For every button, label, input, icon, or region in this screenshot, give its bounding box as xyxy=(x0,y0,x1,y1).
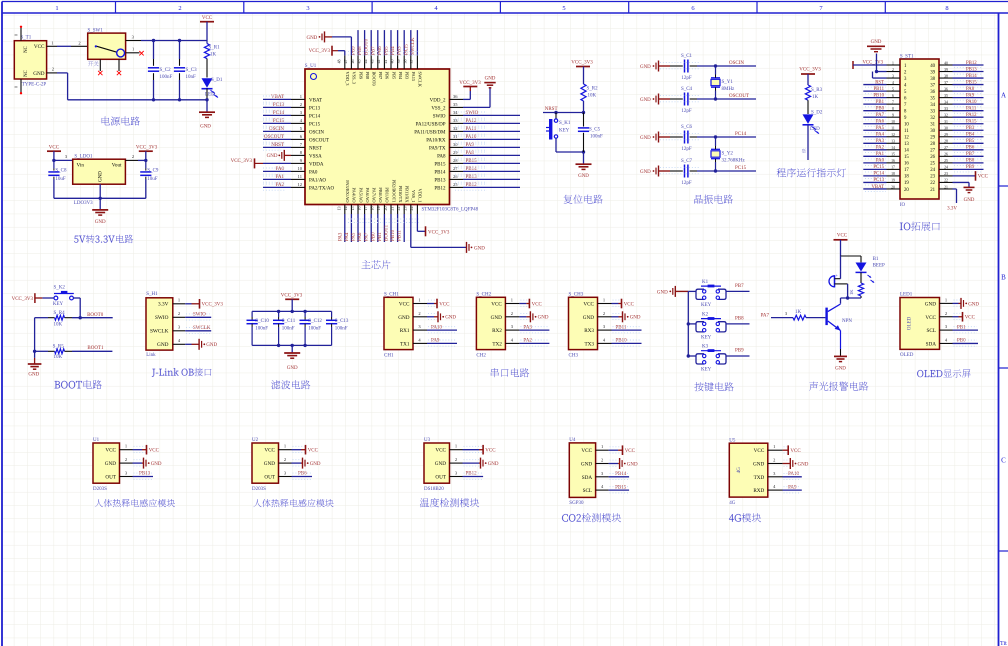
svg-text:GND: GND xyxy=(578,174,589,179)
svg-text:PB15: PB15 xyxy=(966,80,977,85)
svg-text:KEY: KEY xyxy=(701,368,712,373)
svg-text:OUT: OUT xyxy=(105,475,116,481)
svg-text:K1: K1 xyxy=(702,280,709,285)
svg-text:PB14: PB14 xyxy=(966,74,977,79)
svg-text:PA3/RX/AO: PA3/RX/AO xyxy=(345,180,350,202)
svg-text:GND: GND xyxy=(264,461,275,467)
svg-text:2: 2 xyxy=(300,102,302,107)
svg-text:VBAT: VBAT xyxy=(271,95,284,100)
svg-text:PC15: PC15 xyxy=(873,165,884,170)
svg-text:PA10: PA10 xyxy=(788,472,799,477)
svg-text:GND: GND xyxy=(640,136,651,141)
svg-text:VCC: VCC xyxy=(202,16,213,21)
svg-text:34: 34 xyxy=(944,100,948,104)
svg-text:40: 40 xyxy=(389,60,394,64)
svg-text:VCC: VCC xyxy=(978,175,989,180)
svg-text:34: 34 xyxy=(930,103,935,108)
svg-text:SDA: SDA xyxy=(582,475,593,481)
svg-text:GND: GND xyxy=(474,246,485,251)
svg-text:4G: 4G xyxy=(729,501,736,506)
svg-text:5: 5 xyxy=(892,87,894,91)
svg-text:PC15: PC15 xyxy=(309,122,321,127)
svg-text:16: 16 xyxy=(356,207,361,211)
svg-text:PB0/AO: PB0/AO xyxy=(378,187,383,202)
svg-text:VCC: VCC xyxy=(754,448,765,454)
svg-text:32: 32 xyxy=(944,113,948,117)
svg-text:BOOT0: BOOT0 xyxy=(87,313,104,318)
svg-text:12pF: 12pF xyxy=(681,76,692,81)
svg-text:PB9: PB9 xyxy=(735,349,744,354)
svg-text:VCC_3V3: VCC_3V3 xyxy=(571,61,593,66)
svg-text:14: 14 xyxy=(343,207,348,211)
svg-text:38: 38 xyxy=(930,77,935,82)
svg-text:PA5: PA5 xyxy=(352,232,357,241)
svg-text:GND: GND xyxy=(871,40,882,45)
svg-text:VCC: VCC xyxy=(583,302,594,308)
svg-text:2: 2 xyxy=(78,40,80,45)
svg-text:VCC: VCC xyxy=(105,448,116,454)
svg-text:41: 41 xyxy=(383,60,388,64)
svg-text:S_C8: S_C8 xyxy=(55,169,67,174)
svg-text:100nF: 100nF xyxy=(590,135,603,140)
svg-text:LED: LED xyxy=(810,127,820,132)
svg-text:PA5: PA5 xyxy=(876,126,885,131)
svg-text:U3: U3 xyxy=(424,438,431,443)
svg-text:PA1: PA1 xyxy=(876,152,885,157)
svg-text:PA7: PA7 xyxy=(761,313,770,318)
svg-text:VCC: VCC xyxy=(581,448,592,454)
svg-text:KEY: KEY xyxy=(701,335,712,340)
svg-text:PA9: PA9 xyxy=(788,485,797,490)
svg-text:PB12: PB12 xyxy=(434,186,446,191)
svg-text:SCL: SCL xyxy=(583,488,593,494)
svg-text:PA4: PA4 xyxy=(345,232,350,241)
svg-text:DS18B20: DS18B20 xyxy=(424,487,444,492)
svg-text:19: 19 xyxy=(376,207,381,211)
svg-text:D203S: D203S xyxy=(252,487,266,492)
svg-text:RX2: RX2 xyxy=(492,328,502,334)
svg-text:S_D2: S_D2 xyxy=(811,111,823,116)
svg-text:PA15: PA15 xyxy=(966,120,977,125)
svg-text:0: 0 xyxy=(14,34,19,36)
svg-text:16: 16 xyxy=(891,159,895,163)
svg-text:24: 24 xyxy=(409,207,414,211)
svg-text:PC15: PC15 xyxy=(735,166,747,171)
svg-text:Tit: Tit xyxy=(1000,641,1007,646)
svg-text:VCC: VCC xyxy=(925,315,936,321)
svg-text:S_SW1: S_SW1 xyxy=(88,29,104,34)
svg-text:23: 23 xyxy=(930,175,935,180)
svg-text:PB8: PB8 xyxy=(735,317,744,322)
svg-text:10uF: 10uF xyxy=(55,177,66,182)
svg-text:PC14: PC14 xyxy=(309,114,321,119)
svg-text:35: 35 xyxy=(944,94,948,98)
svg-text:IO: IO xyxy=(900,203,906,208)
svg-text:27: 27 xyxy=(930,149,935,154)
svg-text:6: 6 xyxy=(892,94,894,98)
svg-text:NC: NC xyxy=(24,46,29,53)
svg-text:PA7/AO: PA7/AO xyxy=(372,188,377,203)
svg-text:PB9: PB9 xyxy=(352,46,357,55)
svg-text:1K: 1K xyxy=(795,310,802,315)
svg-text:PA15: PA15 xyxy=(411,72,416,82)
svg-text:RXD: RXD xyxy=(753,488,764,494)
svg-text:23: 23 xyxy=(403,207,408,211)
svg-text:S_C1: S_C1 xyxy=(681,54,693,59)
svg-text:11: 11 xyxy=(891,127,895,131)
svg-text:SWIO: SWIO xyxy=(193,313,206,318)
svg-text:40: 40 xyxy=(944,61,948,65)
svg-text:29: 29 xyxy=(944,133,948,137)
svg-text:PA11: PA11 xyxy=(966,106,977,111)
svg-text:OUT: OUT xyxy=(435,475,446,481)
svg-text:Vin: Vin xyxy=(77,163,85,169)
svg-text:S_R5: S_R5 xyxy=(53,344,65,349)
svg-text:PB3: PB3 xyxy=(966,126,975,131)
svg-text:GND: GND xyxy=(583,315,594,321)
svg-text:PB15: PB15 xyxy=(434,162,446,167)
svg-text:PB1/AO: PB1/AO xyxy=(385,187,390,202)
svg-text:K2: K2 xyxy=(702,312,709,317)
svg-text:17: 17 xyxy=(891,166,895,170)
svg-text:PB7: PB7 xyxy=(735,284,744,289)
svg-text:VBAT: VBAT xyxy=(309,98,322,103)
svg-text:SWCLK: SWCLK xyxy=(193,326,211,331)
svg-text:VCC: VCC xyxy=(34,44,45,50)
svg-text:30: 30 xyxy=(944,127,948,131)
svg-text:25: 25 xyxy=(453,182,458,187)
svg-text:PC13: PC13 xyxy=(873,178,884,183)
svg-text:PB4: PB4 xyxy=(966,133,975,138)
svg-text:48: 48 xyxy=(337,60,342,64)
svg-text:10K: 10K xyxy=(588,94,597,99)
svg-text:PA12: PA12 xyxy=(966,113,977,118)
svg-text:VCC: VCC xyxy=(532,302,543,307)
svg-text:VCC_3V3: VCC_3V3 xyxy=(202,303,224,308)
svg-text:OSCIN: OSCIN xyxy=(729,61,744,66)
svg-text:22: 22 xyxy=(930,181,935,186)
svg-text:STM32F103C8T6_LQFP48: STM32F103C8T6_LQFP48 xyxy=(422,208,479,213)
svg-text:9: 9 xyxy=(892,113,894,117)
svg-text:PA11/USB/DM: PA11/USB/DM xyxy=(414,130,446,135)
svg-text:S_C12: S_C12 xyxy=(308,319,322,324)
svg-text:10K: 10K xyxy=(54,322,63,327)
svg-text:S_CH3: S_CH3 xyxy=(569,293,584,298)
svg-text:GND: GND xyxy=(640,98,651,103)
svg-text:1: 1 xyxy=(55,5,58,12)
svg-text:13: 13 xyxy=(337,207,342,211)
svg-text:29: 29 xyxy=(930,136,935,141)
svg-text:26: 26 xyxy=(453,174,458,179)
svg-text:CH3: CH3 xyxy=(569,353,579,358)
svg-text:GND: GND xyxy=(538,316,549,321)
svg-text:D203S: D203S xyxy=(93,487,107,492)
svg-text:PB13: PB13 xyxy=(434,178,446,183)
svg-text:S_K2: S_K2 xyxy=(54,286,66,291)
svg-text:2: 2 xyxy=(945,311,947,316)
svg-text:13: 13 xyxy=(891,140,895,144)
svg-text:GND: GND xyxy=(835,367,846,372)
svg-text:GND: GND xyxy=(287,366,298,371)
svg-text:2: 2 xyxy=(418,311,420,316)
svg-text:30: 30 xyxy=(453,142,458,147)
svg-text:12pF: 12pF xyxy=(681,181,692,186)
svg-text:PA7: PA7 xyxy=(365,232,370,241)
svg-text:37: 37 xyxy=(930,83,935,88)
svg-text:20: 20 xyxy=(891,185,895,189)
svg-text:39: 39 xyxy=(944,68,948,72)
svg-text:27: 27 xyxy=(944,146,948,150)
svg-text:S_Y2: S_Y2 xyxy=(722,152,734,157)
svg-text:PA7: PA7 xyxy=(876,113,885,118)
svg-text:VBAT: VBAT xyxy=(871,185,884,190)
svg-text:VCC: VCC xyxy=(439,302,450,307)
svg-text:PA2: PA2 xyxy=(876,146,885,151)
svg-text:KEY: KEY xyxy=(53,302,64,307)
svg-text:PB15: PB15 xyxy=(615,485,627,490)
svg-text:TXD: TXD xyxy=(754,475,765,481)
svg-text:VSS_2: VSS_2 xyxy=(431,106,446,111)
svg-text:100nF: 100nF xyxy=(255,327,268,332)
svg-text:PA3: PA3 xyxy=(876,139,885,144)
svg-text:S_LDO1: S_LDO1 xyxy=(74,154,93,159)
svg-text:VDDA: VDDA xyxy=(309,162,324,167)
svg-text:GND: GND xyxy=(640,170,651,175)
svg-text:VCC: VCC xyxy=(149,449,160,454)
svg-text:PB0: PB0 xyxy=(876,106,885,111)
svg-text:8MHz: 8MHz xyxy=(722,87,736,92)
svg-text:VCC: VCC xyxy=(837,234,848,239)
svg-text:2: 2 xyxy=(511,311,513,316)
svg-text:VCC: VCC xyxy=(790,449,801,454)
svg-text:VDD_3: VDD_3 xyxy=(345,72,350,87)
svg-text:28: 28 xyxy=(944,140,948,144)
svg-text:VCC_3V3: VCC_3V3 xyxy=(799,68,821,73)
svg-text:11: 11 xyxy=(298,174,302,179)
svg-text:27: 27 xyxy=(453,166,458,171)
svg-text:1: 1 xyxy=(511,298,513,303)
svg-text:PB5: PB5 xyxy=(966,139,975,144)
svg-text:0: 0 xyxy=(14,86,19,88)
svg-text:12pF: 12pF xyxy=(681,147,692,152)
svg-text:PB7: PB7 xyxy=(378,72,383,80)
svg-text:PB3: PB3 xyxy=(405,72,410,80)
svg-text:GND: GND xyxy=(33,71,44,77)
svg-text:31: 31 xyxy=(453,134,458,139)
svg-text:TX1: TX1 xyxy=(400,341,410,347)
svg-text:OUT: OUT xyxy=(264,475,275,481)
svg-text:PA0: PA0 xyxy=(276,167,285,172)
svg-text:3.3V: 3.3V xyxy=(947,207,957,212)
svg-text:PB10: PB10 xyxy=(616,339,628,344)
svg-text:10: 10 xyxy=(904,123,909,128)
svg-text:U4: U4 xyxy=(569,438,576,443)
svg-text:33: 33 xyxy=(944,107,948,111)
svg-text:16: 16 xyxy=(904,162,909,167)
svg-text:PA0: PA0 xyxy=(876,159,885,164)
svg-text:U5: U5 xyxy=(729,438,736,443)
svg-text:18: 18 xyxy=(370,207,375,211)
svg-text:NPN: NPN xyxy=(842,319,852,324)
svg-text:S_H1: S_H1 xyxy=(146,292,158,297)
svg-text:10uF: 10uF xyxy=(147,177,158,182)
svg-text:GND: GND xyxy=(445,316,456,321)
svg-text:S_U1: S_U1 xyxy=(305,64,317,69)
svg-text:2: 2 xyxy=(603,311,605,316)
svg-text:PB6: PB6 xyxy=(966,146,975,151)
svg-text:PB0: PB0 xyxy=(371,232,376,241)
svg-text:S_ST1: S_ST1 xyxy=(900,55,914,60)
svg-text:PB6: PB6 xyxy=(385,72,390,80)
svg-text:PA6: PA6 xyxy=(876,120,885,125)
svg-text:100nF: 100nF xyxy=(282,327,295,332)
svg-text:PA15: PA15 xyxy=(404,44,409,55)
svg-text:PB1: PB1 xyxy=(957,325,966,330)
svg-text:1: 1 xyxy=(892,61,894,65)
svg-text:TX2: TX2 xyxy=(492,341,502,347)
svg-text:S_C3: S_C3 xyxy=(186,68,198,73)
svg-text:10nF: 10nF xyxy=(186,75,197,80)
svg-text:S_R3: S_R3 xyxy=(811,88,823,93)
svg-text:26: 26 xyxy=(944,153,948,157)
svg-text:22: 22 xyxy=(396,207,401,211)
svg-text:TYPE-C-2P: TYPE-C-2P xyxy=(22,83,47,88)
svg-text:20: 20 xyxy=(383,207,388,211)
svg-text:PB11/RX: PB11/RX xyxy=(405,186,410,204)
svg-text:PB12: PB12 xyxy=(466,472,478,477)
svg-text:B: B xyxy=(1001,274,1006,282)
svg-text:GND: GND xyxy=(435,461,446,467)
svg-text:OSCOUT: OSCOUT xyxy=(729,94,749,99)
svg-text:GND: GND xyxy=(95,220,106,225)
svg-text:PB2/BOOT1: PB2/BOOT1 xyxy=(391,180,396,203)
svg-text:GND: GND xyxy=(267,154,278,159)
svg-text:PA12/USB/DP: PA12/USB/DP xyxy=(416,122,446,127)
svg-text:18: 18 xyxy=(891,172,895,176)
svg-text:1: 1 xyxy=(601,444,603,449)
svg-text:PB12: PB12 xyxy=(966,61,977,66)
svg-text:PA2: PA2 xyxy=(523,339,532,344)
svg-text:21: 21 xyxy=(944,185,948,189)
svg-text:47: 47 xyxy=(343,60,348,64)
svg-text:37: 37 xyxy=(409,60,414,64)
svg-text:PB14: PB14 xyxy=(615,472,627,477)
svg-text:GND: GND xyxy=(798,462,809,467)
svg-text:PA2/TX/AO: PA2/TX/AO xyxy=(309,186,334,191)
svg-text:RX1: RX1 xyxy=(400,328,410,334)
svg-text:VCC_3V3: VCC_3V3 xyxy=(281,294,303,299)
svg-text:30: 30 xyxy=(930,129,935,134)
svg-text:20: 20 xyxy=(904,188,909,193)
svg-text:1: 1 xyxy=(300,94,302,99)
svg-text:34: 34 xyxy=(453,110,458,115)
svg-text:35: 35 xyxy=(930,96,935,101)
svg-text:1: 1 xyxy=(773,444,775,449)
svg-text:VCC: VCC xyxy=(491,302,502,308)
svg-text:RST: RST xyxy=(875,80,884,85)
svg-text:S_C10: S_C10 xyxy=(255,319,269,324)
svg-text:24: 24 xyxy=(930,168,935,173)
svg-text:VDD_2: VDD_2 xyxy=(430,98,446,103)
svg-text:S_CH2: S_CH2 xyxy=(476,293,491,298)
svg-text:3.3V: 3.3V xyxy=(158,302,169,308)
svg-text:PB8: PB8 xyxy=(358,46,363,55)
svg-text:S_C5: S_C5 xyxy=(589,128,601,133)
svg-text:S_R4: S_R4 xyxy=(54,311,66,316)
svg-text:14: 14 xyxy=(904,149,909,154)
svg-text:22: 22 xyxy=(944,179,948,183)
svg-text:Link: Link xyxy=(146,353,156,358)
svg-text:PB11: PB11 xyxy=(398,230,403,241)
svg-text:8: 8 xyxy=(892,107,894,111)
svg-text:GND: GND xyxy=(657,290,668,295)
svg-text:29: 29 xyxy=(453,150,458,155)
svg-text:KEY: KEY xyxy=(559,129,570,134)
svg-text:100nF: 100nF xyxy=(308,327,321,332)
svg-text:PA4: PA4 xyxy=(876,133,885,138)
svg-text:36: 36 xyxy=(944,87,948,91)
svg-text:PA8: PA8 xyxy=(966,87,975,92)
svg-text:OSCOUT: OSCOUT xyxy=(309,138,329,143)
svg-text:38: 38 xyxy=(944,74,948,78)
svg-text:VCC: VCC xyxy=(49,146,60,151)
svg-text:100nF: 100nF xyxy=(335,327,348,332)
svg-text:VCC: VCC xyxy=(435,448,446,454)
svg-text:GND: GND xyxy=(488,462,499,467)
svg-text:S_C4: S_C4 xyxy=(681,87,693,92)
svg-text:NC: NC xyxy=(24,70,29,77)
svg-text:1: 1 xyxy=(418,298,420,303)
svg-text:8: 8 xyxy=(945,5,948,12)
svg-text:PA5/AO: PA5/AO xyxy=(358,188,363,203)
svg-text:5: 5 xyxy=(562,5,565,12)
svg-text:GND: GND xyxy=(206,343,217,348)
svg-text:12: 12 xyxy=(298,182,303,187)
svg-text:31: 31 xyxy=(930,123,935,128)
svg-text:32: 32 xyxy=(453,126,458,131)
svg-text:SCL: SCL xyxy=(926,328,936,334)
svg-text:PA9/TX: PA9/TX xyxy=(429,146,446,151)
svg-text:39: 39 xyxy=(396,60,401,64)
svg-text:28: 28 xyxy=(930,142,935,147)
svg-text:VCC: VCC xyxy=(264,448,275,454)
svg-text:GND: GND xyxy=(151,462,162,467)
svg-text:32: 32 xyxy=(930,116,935,121)
svg-text:PB9: PB9 xyxy=(966,165,975,170)
svg-text:OLED: OLED xyxy=(908,316,913,330)
svg-text:GND: GND xyxy=(925,301,936,307)
svg-text:23: 23 xyxy=(944,172,948,176)
svg-text:24: 24 xyxy=(944,166,948,170)
svg-text:PB3: PB3 xyxy=(398,46,403,55)
svg-text:PA8: PA8 xyxy=(437,154,446,159)
svg-text:LED1: LED1 xyxy=(900,293,913,298)
svg-text:14: 14 xyxy=(891,146,895,150)
svg-text:33: 33 xyxy=(930,109,935,114)
svg-text:32.768KHz: 32.768KHz xyxy=(722,159,746,164)
svg-text:38: 38 xyxy=(403,60,408,64)
svg-text:GND: GND xyxy=(485,77,496,82)
svg-text:OLED: OLED xyxy=(900,353,914,358)
svg-text:2: 2 xyxy=(132,154,134,159)
svg-text:SDA: SDA xyxy=(926,341,937,347)
svg-text:K3: K3 xyxy=(702,344,709,349)
svg-text:PB7: PB7 xyxy=(371,46,376,55)
svg-text:SWIO: SWIO xyxy=(433,114,446,119)
svg-text:PB13: PB13 xyxy=(139,472,151,477)
svg-text:S_C9: S_C9 xyxy=(147,169,159,174)
svg-text:VCC: VCC xyxy=(625,449,636,454)
